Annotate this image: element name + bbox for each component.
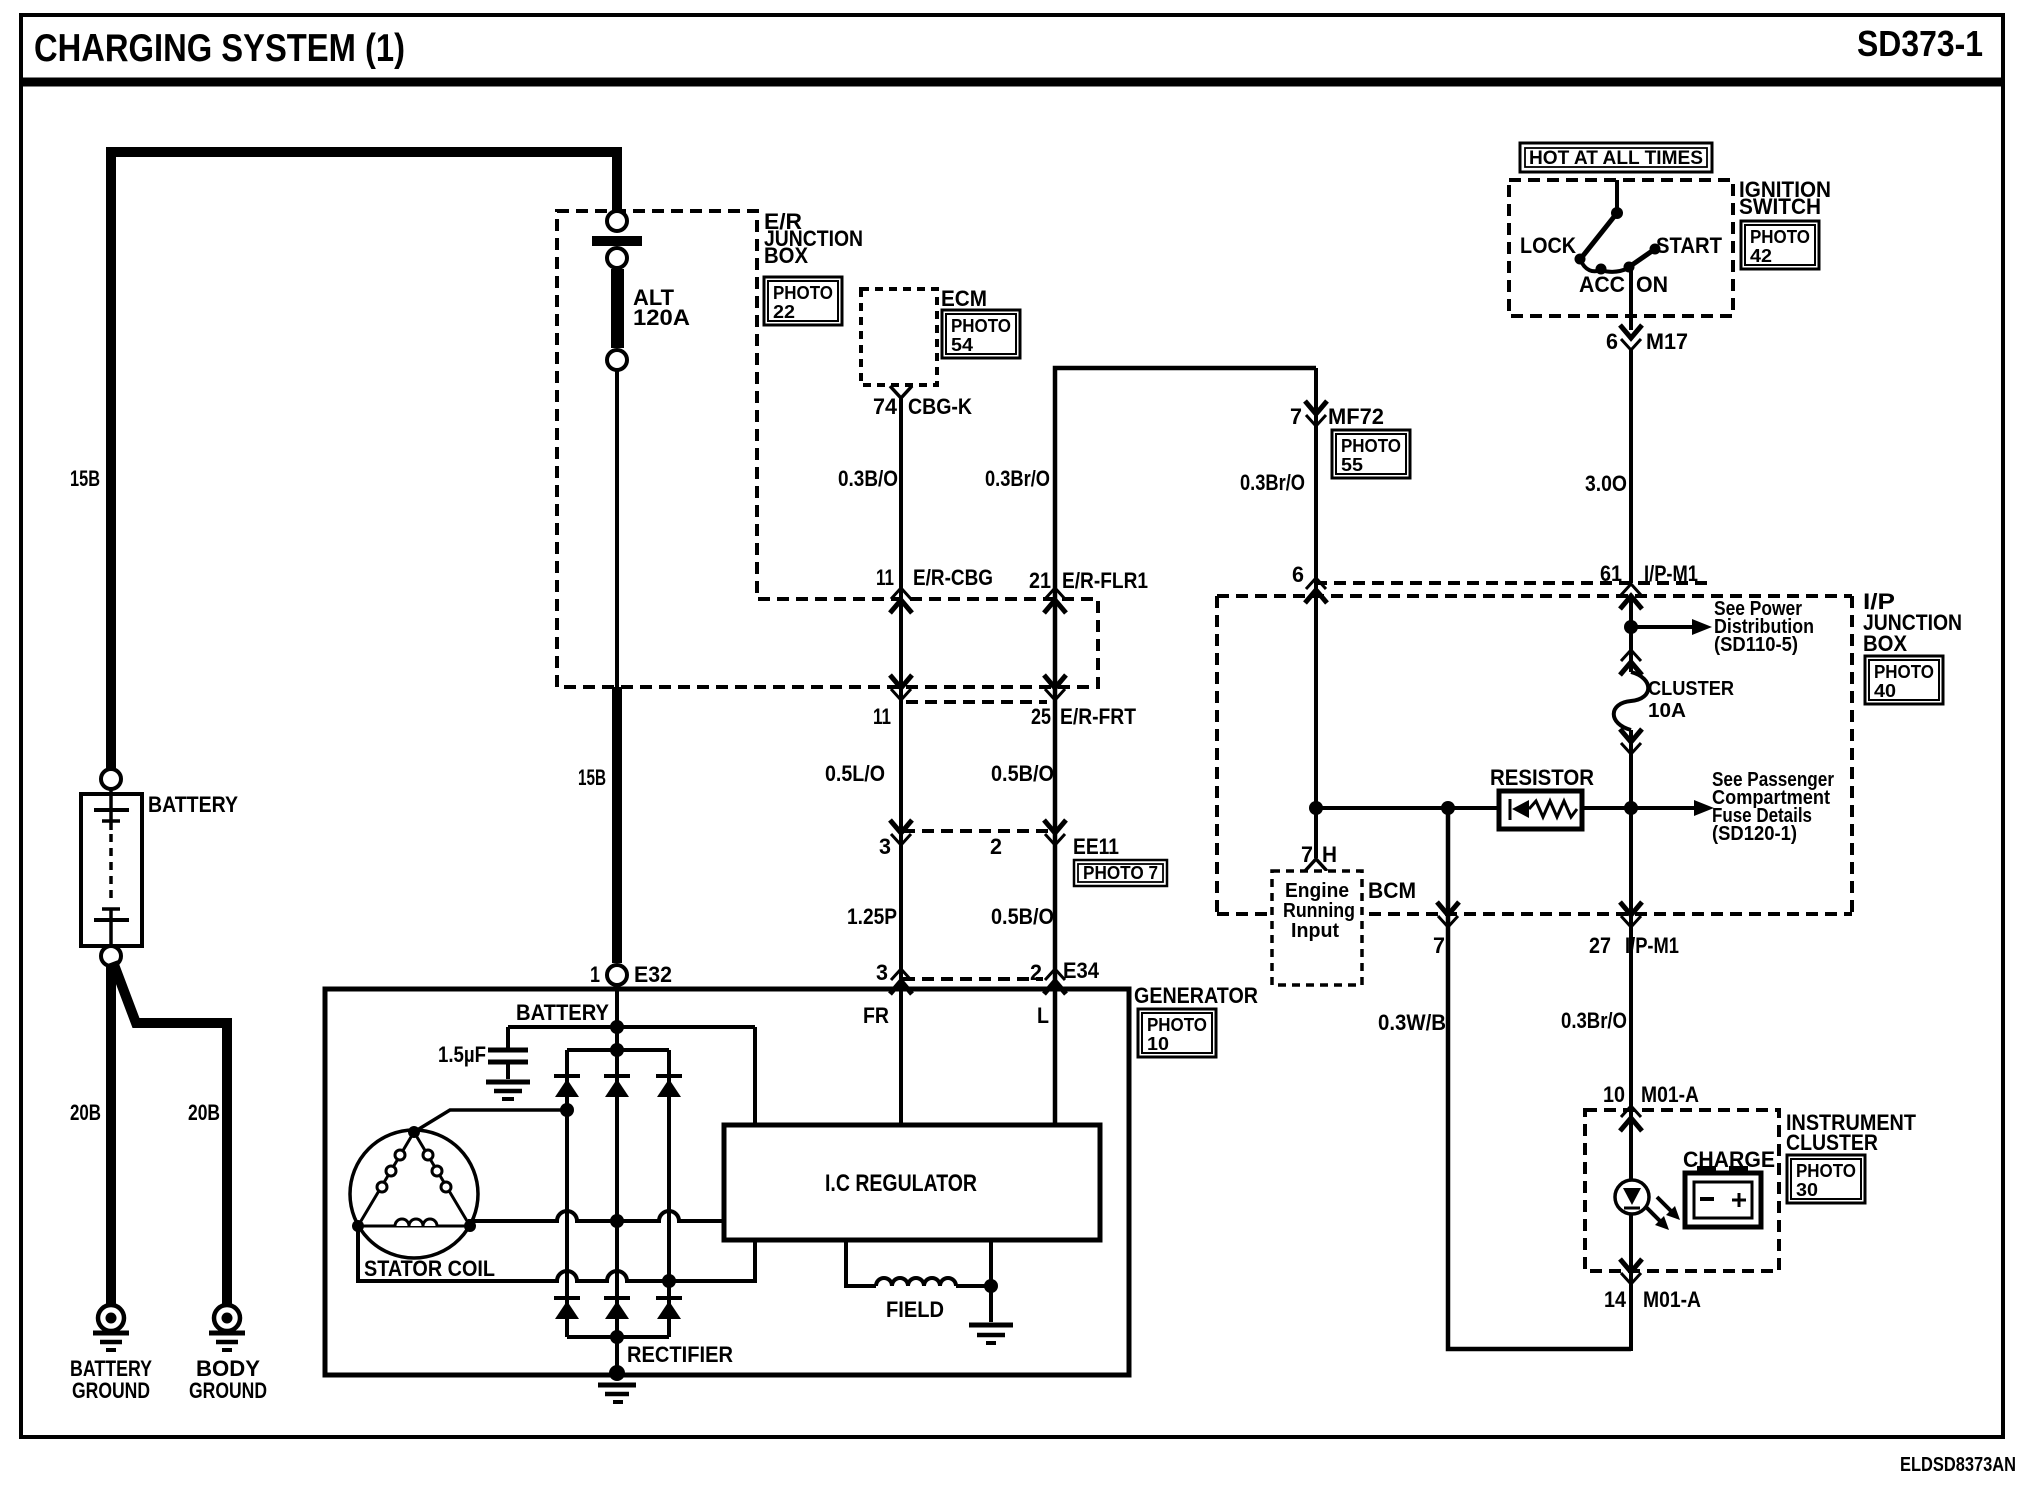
wire: fuse to resistor bus <box>1629 730 1633 915</box>
svg-text:PHOTO: PHOTO <box>1796 1161 1856 1181</box>
wire: L circuit top link and down to generator L <box>1055 368 1316 1125</box>
svg-text:11: 11 <box>876 565 894 590</box>
wire: 0.3W/B from connector 7 down and across <box>1448 808 1631 1349</box>
stator coil windings (triangle) <box>352 1126 476 1232</box>
wire: ignition ON output <box>1629 268 1633 330</box>
photo box PHOTO 42 <box>1741 221 1819 269</box>
photo box PHOTO 54 <box>942 310 1020 358</box>
svg-text:1: 1 <box>590 962 600 987</box>
arrow to See Passenger Compartment Fuse Details <box>1694 800 1714 816</box>
svg-text:7: 7 <box>1290 404 1302 429</box>
svg-text:74: 74 <box>873 394 898 419</box>
HOT AT ALL TIMES box <box>1520 143 1712 172</box>
connector 7 MF72 <box>1305 401 1327 426</box>
connector 21 E/R-FLR1 <box>1044 588 1066 613</box>
generator box <box>325 989 1129 1375</box>
svg-text:10: 10 <box>1603 1082 1625 1107</box>
connector 10 M01-A <box>1620 1106 1642 1131</box>
wire: battery bus inside generator <box>615 985 619 1371</box>
svg-text:(SD120-1): (SD120-1) <box>1712 823 1797 845</box>
wire: 15B thick from E/R box to E32 <box>612 687 622 963</box>
stator coil circle <box>350 1130 478 1258</box>
I/P junction box dashed right edge <box>1850 596 1854 914</box>
svg-text:54: 54 <box>951 335 973 355</box>
svg-text:7: 7 <box>1433 933 1445 958</box>
svg-text:40: 40 <box>1874 681 1896 701</box>
photo box PHOTO 7 <box>1074 860 1167 886</box>
svg-text:15B: 15B <box>70 466 100 491</box>
svg-text:I.C REGULATOR: I.C REGULATOR <box>825 1170 977 1197</box>
svg-text:0.5B/O: 0.5B/O <box>991 904 1054 929</box>
svg-text:STATOR COIL: STATOR COIL <box>364 1256 495 1281</box>
node: battery negative terminal connector <box>101 946 121 966</box>
photo box PHOTO 22 <box>764 277 842 325</box>
svg-text:ECM: ECM <box>941 286 987 311</box>
svg-text:Running: Running <box>1283 900 1355 922</box>
svg-text:PHOTO: PHOTO <box>951 316 1011 336</box>
connector 14 M01-A <box>1620 1259 1642 1284</box>
svg-text:M01-A: M01-A <box>1643 1287 1701 1312</box>
svg-text:0.3B/O: 0.3B/O <box>838 466 898 491</box>
svg-text:FR: FR <box>863 1003 889 1028</box>
ground: field <box>969 1325 1013 1343</box>
svg-text:BATTERY: BATTERY <box>148 792 238 817</box>
svg-text:E/R-FLR1: E/R-FLR1 <box>1062 568 1148 593</box>
svg-text:SD373-1: SD373-1 <box>1857 23 1983 64</box>
svg-text:BCM: BCM <box>1368 878 1416 903</box>
wire: stator phase 3 bus <box>358 1226 755 1281</box>
fuse CLUSTER 10A <box>1620 650 1642 675</box>
arrow to See Power Distribution <box>1631 625 1692 629</box>
charge lamp LED <box>1615 1180 1680 1230</box>
svg-text:27: 27 <box>1589 933 1611 958</box>
wire: thick 15B battery feed, up and across to ALT fuse <box>111 152 617 770</box>
svg-text:0.3Br/O: 0.3Br/O <box>1240 470 1305 495</box>
svg-text:2: 2 <box>990 834 1002 859</box>
ground: battery ground <box>70 1305 152 1403</box>
svg-text:BOX: BOX <box>764 243 808 268</box>
svg-text:RESISTOR: RESISTOR <box>1490 765 1594 790</box>
svg-text:ON: ON <box>1636 272 1668 297</box>
svg-text:(SD110-5): (SD110-5) <box>1714 634 1798 656</box>
svg-text:120A: 120A <box>633 305 690 330</box>
svg-text:1.25P: 1.25P <box>847 904 897 929</box>
svg-text:20B: 20B <box>188 1100 220 1125</box>
wire: stator phase 1 to rectifier <box>414 1110 567 1132</box>
svg-text:Engine: Engine <box>1285 880 1349 902</box>
svg-text:BOX: BOX <box>1863 631 1907 656</box>
I/P junction box dashed bottom edge <box>1217 912 1852 916</box>
svg-text:6: 6 <box>1292 562 1304 587</box>
photo box PHOTO 40 <box>1865 656 1943 704</box>
svg-text:14: 14 <box>1604 1287 1627 1312</box>
svg-text:CBG-K: CBG-K <box>908 394 972 419</box>
connector 7 at I/P bottom <box>1437 902 1459 927</box>
svg-text:BATTERY: BATTERY <box>516 1000 609 1025</box>
svg-text:I/P-M1: I/P-M1 <box>1644 561 1698 586</box>
instrument cluster dashed box <box>1585 1110 1779 1271</box>
ECM dashed box <box>861 289 937 385</box>
connector 27 I/P-M1 <box>1620 902 1642 927</box>
ground: body ground <box>189 1305 267 1403</box>
ignition switch contacts <box>1520 180 1723 297</box>
field coil FIELD <box>846 1240 998 1322</box>
connector 11 E/R-CBG <box>890 588 912 613</box>
rectifier top bus <box>567 1048 669 1052</box>
ignition switch dashed box <box>1509 180 1733 316</box>
svg-text:PHOTO: PHOTO <box>1874 662 1934 682</box>
resistor bus wire <box>1316 806 1499 810</box>
node: phase 1 junction <box>560 1103 574 1117</box>
node junction <box>610 1020 624 1034</box>
wire: bus down to LC regulator B+ <box>753 1027 757 1125</box>
svg-text:25: 25 <box>1031 704 1051 729</box>
harness connector dashed row (E34) <box>903 977 1043 981</box>
svg-text:6: 6 <box>1606 329 1618 354</box>
svg-text:0.3W/B: 0.3W/B <box>1378 1010 1446 1035</box>
diode rectifier top 2 <box>604 1076 630 1097</box>
svg-text:I/P-M1: I/P-M1 <box>1625 933 1679 958</box>
svg-text:PHOTO 7: PHOTO 7 <box>1083 863 1158 883</box>
svg-text:M01-A: M01-A <box>1641 1082 1699 1107</box>
battery icon <box>1685 1166 1761 1227</box>
svg-text:GENERATOR: GENERATOR <box>1134 983 1258 1008</box>
E/R junction box dashed outline <box>557 211 1098 687</box>
svg-text:21: 21 <box>1029 568 1051 593</box>
svg-text:0.3Br/O: 0.3Br/O <box>1561 1008 1627 1033</box>
wire: 3.0O ignition feed down to I/P <box>1629 350 1633 583</box>
svg-text:GROUND: GROUND <box>72 1378 150 1403</box>
rectifier bottom bus <box>567 1335 669 1339</box>
wire: battery ground leg 20B <box>106 964 116 1305</box>
I/P junction box dashed top edge <box>1315 581 1709 585</box>
BCM dashed left edge <box>1215 596 1219 915</box>
connector 74 CBG-K funnel <box>890 386 912 398</box>
fuse ALT 120A <box>592 211 690 370</box>
svg-text:3.0O: 3.0O <box>1585 471 1627 496</box>
svg-text:15B: 15B <box>578 765 606 790</box>
node: top bus junction <box>610 1043 624 1057</box>
connector 6 (BCM) <box>1305 578 1327 603</box>
svg-text:L: L <box>1037 1003 1049 1028</box>
connector 25 E/R-FRT <box>1044 675 1066 700</box>
wire: body ground leg 20B <box>113 962 227 1305</box>
BCM dashed top edge <box>1217 594 1852 598</box>
rectifier diode column 1 <box>565 1050 569 1337</box>
svg-text:0.5L/O: 0.5L/O <box>825 761 885 786</box>
svg-text:PHOTO: PHOTO <box>1341 436 1401 456</box>
svg-text:E/R-FRT: E/R-FRT <box>1060 704 1136 729</box>
wire: ignition feed inside I/P <box>1629 596 1633 672</box>
node: battery positive terminal connector <box>101 769 121 789</box>
svg-text:GROUND: GROUND <box>189 1378 267 1403</box>
svg-text:PHOTO: PHOTO <box>773 283 833 303</box>
svg-text:3: 3 <box>879 834 891 859</box>
node: phase 2 junction <box>610 1214 624 1228</box>
rectifier diode column 3 <box>667 1050 671 1337</box>
photo box PHOTO 30 <box>1787 1155 1865 1203</box>
title separator line <box>21 78 2003 87</box>
node: connector 1 E32 <box>607 965 627 985</box>
svg-text:10: 10 <box>1147 1034 1169 1054</box>
LC regulator box <box>724 1125 1100 1240</box>
svg-text:ACC: ACC <box>1579 272 1625 297</box>
harness connector dashed row (E/R-FRT) <box>906 700 1047 704</box>
svg-text:10A: 10A <box>1648 700 1686 722</box>
connector 11 (row 2) <box>890 675 912 700</box>
svg-text:11: 11 <box>873 704 891 729</box>
svg-text:START: START <box>1656 233 1723 258</box>
svg-text:SWITCH: SWITCH <box>1739 194 1821 219</box>
svg-text:HOT AT ALL TIMES: HOT AT ALL TIMES <box>1529 148 1703 169</box>
diode rectifier top 3 <box>656 1076 682 1097</box>
capacitor 1.5uF with ground <box>438 1027 530 1099</box>
harness connector dashed row (EE11) <box>903 829 1056 833</box>
svg-text:E34: E34 <box>1063 958 1100 983</box>
svg-text:42: 42 <box>1750 246 1772 266</box>
svg-text:20B: 20B <box>70 1100 101 1125</box>
connector 2 EE11 <box>1044 820 1066 845</box>
connector 2 E34 <box>1044 969 1066 994</box>
svg-text:7: 7 <box>1301 842 1313 867</box>
svg-text:Input: Input <box>1291 920 1339 942</box>
svg-text:CLUSTER: CLUSTER <box>1786 1130 1878 1155</box>
photo box PHOTO 10 <box>1138 1009 1216 1057</box>
svg-text:PHOTO: PHOTO <box>1147 1015 1207 1035</box>
diode rectifier bottom 1 <box>554 1298 580 1319</box>
svg-text:0.3Br/O: 0.3Br/O <box>985 466 1050 491</box>
photo box PHOTO 55 <box>1332 430 1410 478</box>
svg-text:M17: M17 <box>1646 329 1688 354</box>
svg-text:61: 61 <box>1600 561 1622 586</box>
connector 3 EE11 <box>890 820 912 845</box>
battery BATTERY <box>81 794 142 946</box>
connector 3 E34 <box>890 969 912 994</box>
wire: ALT fuse to E/R box exit (thin) <box>615 371 619 687</box>
svg-text:0.5B/O: 0.5B/O <box>991 761 1054 786</box>
svg-text:CHARGING SYSTEM (1): CHARGING SYSTEM (1) <box>34 27 405 70</box>
wire: L link down to BCM <box>1314 368 1318 858</box>
svg-text:30: 30 <box>1796 1180 1818 1200</box>
node: bottom bus junction <box>610 1330 624 1344</box>
wire: stator phase 2 bus to regulator <box>470 1211 724 1223</box>
svg-text:H: H <box>1322 842 1337 867</box>
diode rectifier bottom 2 <box>604 1298 630 1319</box>
svg-text:LOCK: LOCK <box>1520 233 1576 258</box>
node junctions on bus <box>1441 801 1455 815</box>
svg-text:MF72: MF72 <box>1328 404 1384 429</box>
svg-text:2: 2 <box>1030 960 1042 985</box>
svg-text:22: 22 <box>773 302 795 322</box>
svg-text:RECTIFIER: RECTIFIER <box>627 1342 733 1367</box>
svg-text:E32: E32 <box>634 962 672 987</box>
wire: 0.3Br/O charge lamp feed <box>1629 915 1633 1351</box>
connector 6 M17 <box>1620 325 1642 350</box>
ground: generator case <box>598 1365 636 1402</box>
node: phase 3 junction <box>662 1274 676 1288</box>
BCM engine running input box <box>1272 871 1362 985</box>
wire: horizontal battery bus to capacitor and regulator <box>508 1025 755 1029</box>
svg-text:PHOTO: PHOTO <box>1750 227 1810 247</box>
diode rectifier bottom 3 <box>656 1298 682 1319</box>
svg-text:E/R-CBG: E/R-CBG <box>913 565 993 590</box>
svg-text:3: 3 <box>876 960 888 985</box>
connector 61 I/P-M1 <box>1620 584 1642 609</box>
node junction at resistor bus <box>1309 801 1323 815</box>
svg-text:ELDSD8373AN: ELDSD8373AN <box>1900 1454 2016 1476</box>
wire: ECM to generator FR <box>899 398 903 1125</box>
diode rectifier top 1 <box>554 1076 580 1097</box>
resistor RESISTOR <box>1490 765 1594 829</box>
svg-text:55: 55 <box>1341 455 1363 475</box>
node junction to power distribution <box>1624 620 1638 634</box>
svg-text:1.5µF: 1.5µF <box>438 1042 486 1067</box>
svg-text:EE11: EE11 <box>1073 834 1119 859</box>
connector 7 H funnel into BCM <box>1305 859 1327 871</box>
svg-text:FIELD: FIELD <box>886 1297 944 1322</box>
svg-text:CLUSTER: CLUSTER <box>1648 678 1734 700</box>
